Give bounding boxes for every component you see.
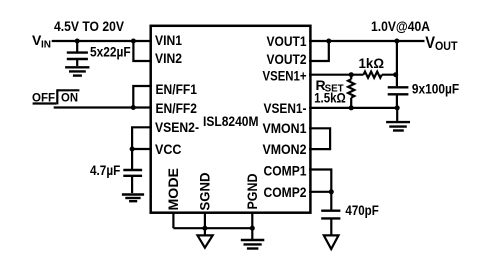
pin EN/FF2 xyxy=(156,100,198,116)
svg-text:VIN2: VIN2 xyxy=(155,50,182,66)
pin VCC xyxy=(155,141,182,157)
wire ground bus xyxy=(173,227,252,229)
svg-text:4.7µF: 4.7µF xyxy=(90,162,121,178)
wire VIN rail xyxy=(52,40,152,42)
wire SGND stub xyxy=(204,213,206,235)
wire MODE stub xyxy=(172,213,174,228)
svg-text:OUT: OUT xyxy=(435,41,458,53)
label 5x22µF xyxy=(90,44,131,60)
svg-text:V: V xyxy=(425,33,435,52)
pin VOUT1 xyxy=(267,33,307,49)
label 1.0V@40A xyxy=(371,18,430,34)
svg-text:ISL8240M: ISL8240M xyxy=(203,113,259,129)
wire VCC feed xyxy=(132,148,152,150)
junction J4 xyxy=(130,147,135,152)
svg-text:PGND: PGND xyxy=(244,174,260,210)
ground GND3 xyxy=(386,108,410,131)
label ISL8240M xyxy=(203,113,259,129)
label 4.7µF xyxy=(90,162,121,178)
label 1kΩ xyxy=(359,55,385,71)
ground GND2 xyxy=(122,195,144,202)
wire VIN2 feed xyxy=(133,41,152,61)
svg-text:5x22µF: 5x22µF xyxy=(90,44,131,60)
capacitor CIN 5x22uF xyxy=(67,41,88,66)
svg-text:IN: IN xyxy=(41,40,51,51)
junction J7 xyxy=(326,39,331,44)
pin EN/FF1 xyxy=(156,81,198,97)
IC U1 ISL8240M body xyxy=(151,26,311,213)
wire PGND stub xyxy=(251,213,253,239)
junction J11 xyxy=(349,105,354,110)
ground GND4 triangle xyxy=(324,235,339,249)
svg-text:VOUT1: VOUT1 xyxy=(267,33,307,49)
capacitor CVCC 4.7uF xyxy=(123,149,142,193)
wire VOUT rail xyxy=(309,40,425,42)
node VOUT xyxy=(425,33,457,53)
junction J13 xyxy=(329,189,334,194)
resistor RSET 1.5kΩ xyxy=(348,75,354,108)
wire VOUT drop xyxy=(396,41,398,75)
junction J1 xyxy=(75,39,80,44)
pin VMON1 xyxy=(263,120,307,136)
svg-text:VSEN2-: VSEN2- xyxy=(155,119,199,135)
pin VMON2 xyxy=(263,141,307,157)
junction J2 xyxy=(131,39,136,44)
svg-text:EN/FF1: EN/FF1 xyxy=(156,81,198,97)
wire VMON bracket xyxy=(309,128,330,149)
pin COMP1 xyxy=(264,162,307,178)
ground PGND earth xyxy=(241,240,264,249)
wire VSEN1+ feed xyxy=(309,74,396,76)
svg-text:VIN1: VIN1 xyxy=(155,32,182,48)
junction J10 xyxy=(393,72,398,77)
wire VOUT2 feed xyxy=(309,41,329,61)
svg-text:COMP2: COMP2 xyxy=(264,184,307,200)
resistor R1 1kΩ xyxy=(364,72,382,78)
svg-text:VMON1: VMON1 xyxy=(263,120,307,136)
capacitor CCOMP 470pF xyxy=(321,192,340,236)
label 1.5kΩ xyxy=(314,90,346,106)
pin VIN2 xyxy=(155,50,182,66)
junction J3 xyxy=(131,105,136,110)
junction J5 xyxy=(202,226,207,231)
pin SGND xyxy=(197,173,213,211)
pin VOUT2 xyxy=(267,51,307,67)
wire COMP bracket xyxy=(309,170,331,192)
label RSET xyxy=(316,77,344,95)
wire VSEN1- feed xyxy=(309,107,398,109)
pin COMP2 xyxy=(264,184,307,200)
wire EN/FF2 feed xyxy=(54,106,152,108)
junction J6 xyxy=(250,226,255,231)
svg-text:4.5V TO 20V: 4.5V TO 20V xyxy=(54,18,125,34)
svg-text:COMP1: COMP1 xyxy=(264,162,307,178)
junction J9 xyxy=(349,72,354,77)
svg-text:EN/FF2: EN/FF2 xyxy=(156,100,198,116)
svg-text:1kΩ: 1kΩ xyxy=(359,55,385,71)
svg-text:SGND: SGND xyxy=(197,173,213,211)
ground SGND triangle xyxy=(198,235,213,247)
svg-text:1.5kΩ: 1.5kΩ xyxy=(314,90,346,106)
pin VSEN2- xyxy=(155,119,199,135)
node VIN xyxy=(32,32,51,50)
capacitor COUT 9x100uF xyxy=(388,75,409,108)
ground GND1 xyxy=(65,67,89,75)
wire EN/FF1 feed xyxy=(133,86,152,108)
svg-text:VSEN1-: VSEN1- xyxy=(264,100,307,116)
label 470pF xyxy=(345,202,379,218)
svg-text:MODE: MODE xyxy=(165,168,181,211)
svg-text:VCC: VCC xyxy=(155,141,182,157)
wire VSEN2- feed xyxy=(132,127,152,149)
label 4.5V TO 20V xyxy=(54,18,125,34)
junction J8 xyxy=(394,39,399,44)
pin MODE xyxy=(165,168,181,211)
pin VIN1 xyxy=(155,32,182,48)
pin VSEN1+ xyxy=(263,67,307,83)
junction J12 xyxy=(395,105,400,110)
pin PGND xyxy=(244,174,260,210)
svg-text:1.0V@40A: 1.0V@40A xyxy=(371,18,430,34)
svg-text:VSEN1+: VSEN1+ xyxy=(263,67,307,83)
svg-text:470pF: 470pF xyxy=(345,202,379,218)
pin VSEN1- xyxy=(264,100,307,116)
switch OFF/ON xyxy=(32,89,79,104)
label 9x100µF xyxy=(412,80,460,96)
svg-text:VMON2: VMON2 xyxy=(263,141,307,157)
svg-text:ON: ON xyxy=(61,92,78,104)
svg-text:VOUT2: VOUT2 xyxy=(267,51,307,67)
svg-text:9x100µF: 9x100µF xyxy=(412,80,460,96)
